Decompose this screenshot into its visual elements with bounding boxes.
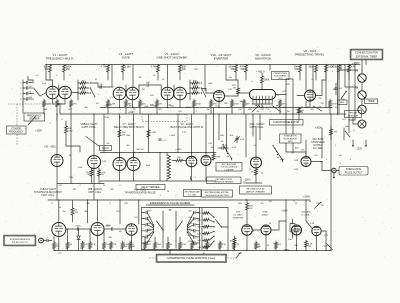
arrow -220V a — [352, 140, 354, 148]
svg-text:SEQUENCE SELECTION: SEQUENCE SELECTION — [205, 195, 229, 197]
resistor 39K V2 cathode — [125, 99, 133, 114]
label V7 delay one shot multi — [114, 123, 145, 129]
svg-text:82K: 82K — [193, 80, 197, 82]
svg-text:V12: V12 — [134, 217, 138, 219]
label .22M — [69, 177, 74, 179]
svg-text:SYNCHRONIZATION: SYNCHRONIZATION — [10, 238, 30, 241]
svg-text:+300V: +300V — [315, 127, 322, 130]
svg-text:220: 220 — [138, 77, 142, 79]
label V2 gate — [119, 52, 134, 59]
resistor 82K 1W plate V7B — [246, 200, 254, 225]
label V7B inverter — [233, 212, 244, 220]
capacitor 2000 V8B — [66, 226, 91, 231]
svg-text:1M: 1M — [81, 80, 84, 82]
label experimental pulse shaper — [146, 201, 194, 205]
svg-text:.1: .1 — [331, 71, 334, 73]
label 101 pin b — [355, 88, 359, 90]
resistor 68K dekatron — [243, 99, 251, 114]
terminal stimulation output — [332, 168, 336, 178]
svg-text:2000: 2000 — [76, 226, 82, 228]
wire mid bus y152 — [100, 152, 216, 154]
svg-text:1.5K: 1.5K — [324, 235, 329, 237]
box connection for external timer — [350, 49, 383, 60]
svg-text:2200: 2200 — [157, 244, 162, 246]
svg-text:52: 52 — [295, 203, 298, 205]
resistor 1M V7B grid — [229, 236, 236, 251]
svg-text:220: 220 — [188, 211, 192, 213]
svg-text:D.C. BAL.: D.C. BAL. — [188, 193, 197, 196]
resistor 240K dekatron anode — [261, 73, 270, 88]
wire bottom right diagonal — [327, 244, 333, 250]
svg-text:DELAY ONE SHOT MULTI.: DELAY ONE SHOT MULTI. — [114, 126, 145, 129]
svg-text:2W: 2W — [56, 246, 59, 248]
svg-text:5: 5 — [111, 97, 113, 99]
svg-text:68K: 68K — [220, 135, 224, 137]
svg-text:8: 8 — [61, 119, 63, 121]
wire band verticals V7 — [104, 108, 214, 158]
box coarse frequency — [7, 126, 27, 134]
svg-text:C: C — [20, 83, 22, 85]
label V12 thyratron — [125, 190, 156, 195]
svg-text:10K: 10K — [278, 244, 282, 246]
resistor 39K V4A cathode — [210, 99, 218, 114]
svg-text:.1: .1 — [194, 177, 197, 179]
resistor 47K V4A coupling — [232, 82, 239, 94]
capacitor .02 coupling V1-V2 — [99, 84, 103, 89]
label +150V mid — [128, 112, 135, 114]
svg-text:100: 100 — [146, 82, 150, 84]
resistor 1K V9A cathode — [251, 168, 258, 183]
wire monitor to jack — [353, 118, 358, 125]
switch contact S1b external timer — [358, 91, 366, 99]
tube V6b — [201, 156, 211, 166]
svg-text:PULSE AMPLIF.: PULSE AMPLIF. — [283, 137, 297, 140]
svg-text:1.7M: 1.7M — [310, 223, 315, 225]
svg-text:- 220V: - 220V — [355, 148, 362, 151]
svg-text:3-45: 3-45 — [240, 139, 245, 141]
svg-text:.01: .01 — [28, 91, 32, 93]
svg-text:4.7M: 4.7M — [151, 66, 156, 69]
svg-text:68: 68 — [69, 155, 72, 157]
wire V10 out top — [305, 140, 307, 157]
svg-text:680: 680 — [86, 203, 90, 205]
svg-text:2W: 2W — [319, 98, 322, 100]
diode CR1 — [77, 233, 80, 251]
svg-text:47K: 47K — [310, 109, 314, 111]
capacitor 2000 V12 grid — [104, 226, 126, 231]
svg-text:1W: 1W — [132, 246, 135, 248]
svg-text:680K: 680K — [308, 66, 314, 69]
svg-text:.1: .1 — [47, 237, 50, 239]
svg-text:RECTANG. PULSE: RECTANG. PULSE — [216, 178, 233, 181]
svg-text:1: 1 — [55, 75, 57, 77]
svg-text:MONITOR: MONITOR — [348, 115, 359, 117]
wire V10 ref leads — [56, 114, 58, 120]
box function selector — [270, 120, 304, 126]
svg-text:COARSE: COARSE — [11, 127, 21, 130]
box rect pulse amplif vernier — [240, 186, 272, 194]
svg-text:PULSE OUTPUT: PULSE OUTPUT — [12, 242, 29, 244]
wire cap bank to V1 grid — [28, 80, 46, 96]
svg-text:CATH. FOLL.: CATH. FOLL. — [82, 126, 97, 129]
capacitor 100 coupling V2-V3 — [146, 82, 150, 87]
wire drops row1 to bus — [53, 65, 327, 115]
resistor 220K right — [331, 65, 340, 81]
svg-text:2W: 2W — [66, 68, 70, 71]
svg-text:2W: 2W — [321, 103, 324, 105]
label -260V right — [296, 111, 303, 114]
svg-text:.20M: .20M — [196, 233, 201, 235]
svg-text:A: A — [36, 74, 38, 77]
wire V9A top — [255, 127, 257, 158]
svg-text:1.2M: 1.2M — [294, 169, 299, 171]
svg-text:82K: 82K — [197, 220, 201, 222]
switch capacitor fan right — [187, 208, 200, 250]
tube V12 thyratron exp — [126, 224, 137, 235]
wire duration box dashed leads — [149, 257, 236, 259]
svg-text:(2D): (2D) — [278, 78, 282, 80]
svg-text:+105V: +105V — [35, 130, 42, 133]
label V5 dekatron — [255, 53, 271, 60]
svg-text:7: 7 — [195, 89, 197, 91]
svg-text:50K: 50K — [345, 126, 349, 128]
svg-text:2W: 2W — [122, 134, 125, 136]
box rectangular dc balance — [184, 190, 202, 197]
svg-text:2.2M: 2.2M — [110, 104, 115, 106]
svg-text:B: B — [51, 203, 53, 205]
resistor 47K V5 — [240, 65, 248, 81]
resistor 2.2M V2 grid — [107, 99, 115, 114]
resistor 120K V8 cathode — [329, 99, 338, 114]
label V8B cath foll — [88, 188, 103, 194]
svg-text:V10 - 5651: V10 - 5651 — [44, 146, 56, 149]
box synchronization pulse output — [4, 235, 36, 246]
svg-text:N: N — [277, 95, 279, 97]
svg-text:56: 56 — [169, 210, 172, 212]
tube V8 thyratron — [305, 90, 316, 101]
svg-text:52: 52 — [252, 231, 255, 233]
resistor 47K right column — [330, 126, 338, 140]
tube V1B sync output — [52, 223, 66, 237]
box rectangular pulse duration — [216, 163, 242, 172]
svg-text:STIM.PULSE: STIM.PULSE — [311, 142, 325, 144]
svg-text:47K: 47K — [150, 95, 154, 97]
box phone monitor — [345, 111, 362, 118]
svg-text:1W: 1W — [119, 231, 122, 233]
jack J1 monitor — [358, 120, 366, 128]
switch contacts presetting row — [301, 106, 322, 111]
box rectangular exponential selection — [202, 190, 233, 197]
svg-text:GATE: GATE — [122, 55, 130, 59]
wire V4A to dekatron — [225, 93, 250, 96]
svg-text:J: J — [242, 225, 243, 227]
label 400 selector — [230, 135, 234, 137]
svg-text:CATH. FOLL.: CATH. FOLL. — [41, 194, 55, 197]
texture value labels — [36, 65, 355, 255]
svg-text:47K: 47K — [286, 84, 290, 86]
scan speckle texture — [3, 46, 393, 265]
svg-text:FREQUENCY MULTI.: FREQUENCY MULTI. — [46, 56, 74, 60]
label V1B synchr pulse output — [34, 188, 63, 197]
svg-text:1K: 1K — [170, 244, 173, 246]
svg-text:1.2M: 1.2M — [294, 160, 299, 162]
resistor 82K V3 — [179, 65, 187, 81]
svg-text:1W: 1W — [294, 68, 298, 71]
wire bus drop to external timer box — [365, 60, 367, 65]
wire right verticals mid — [322, 65, 355, 251]
svg-text:VERNIER: VERNIER — [29, 118, 40, 120]
box presetting for transients — [272, 72, 290, 81]
svg-text:EXTERNAL TIMER: EXTERNAL TIMER — [356, 56, 378, 59]
box minutes — [338, 100, 348, 104]
svg-text:FOR TRANS.: FOR TRANS. — [274, 74, 287, 77]
svg-text:CATH. FOLL.: CATH. FOLL. — [250, 126, 265, 129]
svg-text:2: 2 — [69, 75, 71, 77]
wire V8 plate right — [316, 80, 327, 96]
wire bus drop x306 — [305, 65, 307, 91]
svg-text:-1M: -1M — [197, 247, 201, 249]
svg-text:1M: 1M — [133, 109, 136, 111]
wire V1 to V2 coupling — [91, 83, 114, 87]
wire bottom bus — [54, 250, 331, 252]
svg-text:- 260 V: - 260 V — [244, 180, 252, 182]
svg-text:1W: 1W — [229, 77, 232, 79]
label +400 bottom right — [322, 246, 328, 248]
capacitor trimmer 3-45 selector — [235, 136, 245, 143]
wire V8 grid left — [297, 95, 305, 97]
svg-text:V10- 6AS5: V10- 6AS5 — [312, 138, 324, 141]
resistor 22M grid — [212, 153, 220, 161]
svg-text:50: 50 — [59, 207, 62, 209]
svg-text:RECTANG.PULSE: RECTANG.PULSE — [246, 187, 265, 190]
svg-text:56K: 56K — [197, 240, 201, 242]
svg-text:240K: 240K — [264, 80, 270, 82]
svg-text:400: 400 — [230, 135, 234, 137]
svg-text:1W: 1W — [308, 246, 311, 248]
resistor 82K 2W plate V1a — [44, 65, 52, 81]
label -100V — [283, 250, 290, 252]
potentiometer frequency vernier arm — [28, 117, 36, 126]
label V9A cath foll — [249, 123, 265, 129]
svg-text:2W: 2W — [128, 106, 131, 108]
svg-text:AMPLIF. VERNIER: AMPLIF. VERNIER — [246, 190, 265, 193]
resistor .27K 2W V6B cathode a — [86, 168, 93, 184]
svg-text:101: 101 — [355, 71, 359, 73]
svg-text:.005: .005 — [28, 97, 33, 99]
svg-text:+300V: +300V — [303, 196, 310, 199]
tube V7a — [113, 158, 126, 171]
box frequency vernier — [24, 113, 45, 121]
label V4A inverter — [211, 53, 232, 60]
svg-text:470: 470 — [147, 217, 151, 219]
svg-text:INVERTER: INVERTER — [214, 56, 229, 60]
label V10-5651 — [44, 146, 56, 149]
switch resistor fan duration — [196, 208, 222, 250]
resistor 1M function feed — [298, 108, 305, 113]
switch arm right fan — [175, 221, 182, 231]
resistor 47K V1b — [70, 99, 78, 114]
svg-text:47K: 47K — [178, 111, 182, 113]
svg-text:DELAY VERNIER: DELAY VERNIER — [141, 186, 160, 189]
svg-text:MF: MF — [127, 145, 131, 147]
resistor 10M V2 — [122, 65, 131, 81]
svg-text:FUNCTION SELECTOR: FUNCTION SELECTOR — [273, 121, 299, 124]
svg-text:2: 2 — [49, 123, 51, 125]
wire bus drop x167 — [167, 65, 169, 88]
wire coupling to V3 — [149, 85, 161, 90]
svg-text:.02: .02 — [162, 79, 166, 81]
tube V10 reference — [51, 155, 63, 167]
label 380 band — [153, 106, 157, 108]
wire bus drop x133 — [132, 65, 134, 88]
svg-text:2: 2 — [97, 94, 99, 96]
svg-text:68K: 68K — [248, 109, 252, 111]
svg-text:47K: 47K — [236, 244, 240, 246]
tube V14b — [292, 225, 302, 235]
svg-text:1M: 1M — [69, 244, 72, 246]
wire V1b to bank — [71, 92, 78, 94]
svg-text:220K: 220K — [234, 104, 240, 106]
bottom resistor row — [53, 241, 282, 251]
svg-text:1/2 12AT7: 1/2 12AT7 — [233, 213, 243, 216]
svg-text:27K: 27K — [58, 253, 62, 255]
svg-text:2: 2 — [175, 195, 177, 197]
svg-text:4700: 4700 — [182, 244, 187, 246]
box timer — [365, 99, 378, 104]
svg-text:3-45: 3-45 — [232, 147, 237, 149]
svg-text:+ 400: + 400 — [322, 246, 328, 248]
tube V3a — [161, 87, 174, 100]
label +105V — [35, 130, 42, 133]
label .01 mid — [168, 105, 172, 107]
svg-text:RECTANGULAR: RECTANGULAR — [185, 191, 201, 194]
svg-text:(COARSE): (COARSE) — [224, 168, 234, 171]
svg-text:4.7M: 4.7M — [101, 66, 106, 69]
resistor 820 V2b — [139, 99, 147, 114]
svg-text:STIMULATION: STIMULATION — [284, 135, 297, 138]
label +300V mid right — [315, 127, 322, 130]
tube V3b — [174, 87, 187, 100]
tube V14a — [261, 225, 271, 235]
switch fan rect duration selector — [222, 144, 232, 160]
svg-text:47K: 47K — [92, 244, 96, 246]
resistor 50 1W V1B grid — [71, 207, 79, 222]
svg-text:82K: 82K — [249, 206, 253, 208]
svg-text:1M: 1M — [207, 109, 210, 111]
wire drops to bottom tubes — [59, 200, 139, 251]
resistor 270K V3 cathode — [193, 99, 202, 114]
resistor 100K right — [325, 65, 334, 81]
label -260V DC — [244, 180, 252, 185]
svg-text:1.0M: 1.0M — [125, 66, 130, 69]
tube V7B inverter — [242, 225, 253, 236]
svg-text:V14A: V14A — [262, 211, 268, 214]
svg-text:1W: 1W — [182, 68, 186, 71]
transformer output small box — [290, 219, 295, 238]
tube V5 dekatron capsule — [250, 88, 276, 104]
svg-text:1M: 1M — [81, 85, 84, 87]
svg-text:3-45: 3-45 — [182, 132, 187, 134]
svg-text:1M: 1M — [287, 111, 290, 113]
terminal sync output — [39, 238, 44, 243]
svg-text:V12 - 2D21: V12 - 2D21 — [134, 190, 146, 192]
svg-text:100: 100 — [106, 143, 110, 145]
svg-text:DEKATRON: DEKATRON — [255, 56, 271, 60]
wire duration box right diagonal — [236, 253, 241, 259]
svg-text:.1: .1 — [29, 80, 32, 82]
svg-text:1000: 1000 — [188, 223, 193, 225]
svg-text:4: 4 — [339, 163, 341, 165]
capacitor .1 sync out — [47, 237, 50, 242]
svg-text:2: 2 — [109, 203, 111, 205]
svg-text:1M: 1M — [59, 185, 62, 187]
svg-text:47K: 47K — [68, 109, 72, 111]
svg-text:47K: 47K — [113, 244, 117, 246]
svg-text:1M: 1M — [159, 104, 162, 106]
resistor 1M V3 grid — [156, 99, 163, 114]
tube V10 output — [301, 157, 311, 167]
svg-text:2W: 2W — [87, 174, 90, 176]
wire y183 left segment — [57, 146, 104, 184]
svg-text:2W: 2W — [101, 174, 104, 176]
wire bus drop x355 — [354, 65, 356, 121]
box rect pulse duration vernier — [207, 177, 242, 184]
switch arm left fan — [157, 221, 164, 231]
svg-text:820: 820 — [84, 107, 88, 109]
capacitor trimmer 3-45 — [218, 145, 228, 149]
tube V6a — [186, 156, 197, 167]
box stimulation pulse amplif — [280, 134, 302, 143]
svg-text:1M: 1M — [342, 99, 345, 101]
svg-text:220: 220 — [147, 211, 151, 213]
resistor 680K V8 — [308, 65, 317, 81]
svg-text:1M: 1M — [96, 103, 99, 105]
svg-text:+.05M: +.05M — [169, 135, 175, 137]
svg-text:PRESETTING TRANS.: PRESETTING TRANS. — [295, 52, 325, 56]
resistor .02M band — [147, 130, 156, 137]
wire fan frame — [142, 208, 229, 250]
svg-text:101: 101 — [342, 119, 346, 121]
tube V1a — [46, 86, 59, 99]
svg-text:1M: 1M — [339, 155, 342, 157]
switch capacitor fan left — [142, 208, 155, 250]
switch dekatron cathode selector — [252, 105, 281, 112]
svg-text:47K: 47K — [314, 155, 318, 157]
svg-text:100K: 100K — [46, 104, 52, 106]
svg-text:PS2: PS2 — [260, 109, 265, 111]
svg-text:.01: .01 — [153, 75, 157, 77]
label V6 rect pulse one shot — [170, 123, 204, 129]
wire bus drop x226 — [225, 65, 227, 81]
tube V2b — [126, 87, 139, 100]
svg-text:160K: 160K — [280, 159, 285, 161]
svg-text:.1: .1 — [349, 159, 352, 161]
wire +300V top bus — [46, 64, 360, 66]
svg-text:V1B-1/2 12AU7: V1B-1/2 12AU7 — [40, 188, 57, 191]
potentiometer dc balance — [315, 202, 322, 209]
svg-text:2W: 2W — [44, 68, 48, 71]
svg-text:1M: 1M — [229, 241, 232, 243]
svg-text:TIMER: TIMER — [367, 101, 374, 103]
label V10 stim pulse output — [311, 138, 325, 150]
svg-text:560K: 560K — [105, 117, 110, 119]
label +100V — [281, 211, 288, 213]
svg-text:16A: 16A — [43, 108, 47, 111]
capacitor bank frequency range C1-C4 — [20, 80, 40, 101]
svg-text:22: 22 — [269, 223, 272, 225]
box delay vernier — [136, 185, 165, 190]
svg-text:100K: 100K — [146, 165, 151, 167]
